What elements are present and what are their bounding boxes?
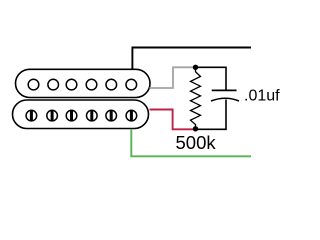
wire green ground lead xyxy=(131,129,251,156)
resistor R1 500k zigzag xyxy=(191,67,201,129)
node B (bottom junction) xyxy=(193,126,198,131)
svg-text:.01uf: .01uf xyxy=(244,88,280,105)
wire red lead from bottom coil to node B xyxy=(150,110,195,130)
pickup bobbin north (top coil) xyxy=(16,69,151,97)
screw pole S6 xyxy=(126,110,137,121)
capacitor C1 top plate xyxy=(212,89,237,91)
screw pole S3 xyxy=(66,110,77,121)
screw pole S1 xyxy=(26,110,37,121)
screw pole S5 xyxy=(106,110,117,121)
capacitor C1 bottom curved plate xyxy=(211,98,239,101)
screw pole S2 xyxy=(47,110,58,121)
pole piece N6 xyxy=(126,79,137,90)
pickup bobbin south (bottom coil) xyxy=(13,100,149,129)
pole piece N1 xyxy=(28,79,39,90)
wire gray lead from top coil to node A xyxy=(150,67,195,88)
wire capacitor bottom to node B xyxy=(196,100,227,130)
pole piece N3 xyxy=(66,79,77,90)
pole piece N5 xyxy=(106,79,117,90)
wire black hot lead from pickup top to upper rail xyxy=(132,48,251,71)
pole piece N4 xyxy=(86,79,97,90)
svg-text:500k: 500k xyxy=(176,132,217,153)
pole piece N2 xyxy=(48,79,59,90)
wire node A to capacitor top xyxy=(196,67,227,90)
screw pole S4 xyxy=(87,110,98,121)
node A (top junction) xyxy=(193,65,198,70)
